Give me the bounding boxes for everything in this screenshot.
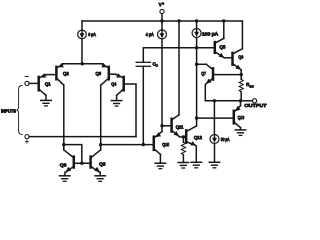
transistor Q11 — [172, 115, 180, 136]
current source I3 100uA — [192, 29, 201, 38]
wire IN+ to Q4 base drop — [29, 136, 136, 138]
node Cc bottom tap — [142, 143, 145, 146]
wire Q7 emitter to output wire — [205, 84, 214, 101]
node mirror bases — [80, 162, 83, 165]
transistor Q2 — [56, 63, 63, 85]
node 100uA-Q13 base — [195, 116, 198, 119]
wire Q4 collector to ground — [116, 95, 118, 100]
wire Q5 base — [197, 47, 214, 49]
ground Q10 — [155, 163, 165, 169]
wire Q7 base to output darlington node — [214, 74, 241, 76]
label Q13 — [238, 115, 245, 120]
terminal IN+ (non-inverting input) — [25, 135, 29, 143]
transistor Q8 — [64, 150, 74, 172]
wire Q6 collector up to rail — [241, 21, 243, 49]
resistor R1 (Q12 base resistor) — [181, 137, 185, 162]
current source I2 4uA — [158, 30, 167, 39]
wire 4uA top — [161, 21, 163, 30]
wire to output terminal — [241, 100, 253, 102]
wire Q5 emitter to Q6 base — [225, 57, 232, 59]
ground Q1 — [41, 100, 51, 106]
node 100uA-Q5 base — [195, 46, 198, 49]
node 50uA tap — [213, 99, 216, 102]
current source I4 50uA — [210, 135, 219, 144]
svg-text:Q2: Q2 — [63, 71, 69, 76]
wire 6uA top — [81, 21, 83, 30]
wire Q1 collector to ground — [45, 95, 47, 100]
wire Q1 emitter to Q2 base — [46, 74, 55, 76]
svg-text:Q4: Q4 — [111, 82, 116, 87]
wire Q11 collector up to rail — [178, 21, 180, 115]
svg-text:Q13: Q13 — [238, 115, 245, 120]
wire Q7 collector to 100uA line — [197, 63, 207, 65]
current source I1 6uA — [78, 30, 87, 39]
wire Q13 base — [197, 117, 233, 119]
label Q11 — [176, 124, 184, 129]
label 100uA — [202, 31, 218, 36]
terminal OUTPUT — [253, 99, 257, 103]
label Q3 — [96, 71, 102, 76]
svg-text:6 µA: 6 µA — [88, 32, 96, 37]
svg-text:+: + — [162, 2, 164, 6]
wire Q12 base — [183, 136, 185, 138]
label Q10 — [162, 142, 169, 147]
wire Q9 collector up — [100, 145, 102, 150]
label C_C — [153, 61, 159, 67]
node rail-I3 — [195, 19, 198, 22]
brace inputs — [17, 86, 22, 135]
wire Q11 base — [162, 125, 171, 127]
wire 50uA top — [213, 101, 215, 135]
wire Q3 collector down to Q9 — [100, 85, 102, 150]
wire Q8 collector up — [63, 145, 65, 150]
transistor Q4 — [116, 73, 124, 95]
wire Cc top to Q5 base node — [143, 48, 196, 63]
wire Q3 base to Q4 emitter — [110, 73, 116, 75]
node output — [239, 99, 242, 102]
svg-text:Q7: Q7 — [201, 71, 206, 76]
wire 6uA to input pair node — [81, 39, 83, 64]
wire output node — [205, 100, 240, 102]
node rail-Q11 — [177, 19, 180, 22]
transistor Q3 — [101, 63, 109, 85]
wire Q8 collector node to mirror bases — [64, 145, 82, 164]
svg-text:Q12: Q12 — [194, 135, 202, 140]
label Q7 — [201, 71, 206, 76]
transistor Q7 — [206, 64, 213, 84]
svg-text:Q3: Q3 — [96, 71, 102, 76]
svg-text:Q5: Q5 — [219, 45, 225, 50]
label Q5 — [219, 45, 225, 50]
wire Q3 emitter to node — [82, 63, 102, 65]
svg-text:SC: SC — [250, 84, 255, 88]
label Q1 — [45, 82, 51, 87]
label Q4 — [111, 82, 116, 87]
transistor Q5 — [215, 38, 225, 57]
label Q2 — [63, 71, 69, 76]
node input pair emitters — [81, 62, 84, 65]
wire second stage input (Q9 collector to Q10 base) — [101, 144, 153, 146]
node Q6 emitter / R_SC / Q7 base — [240, 73, 243, 76]
terminal IN- (inverting input) — [25, 76, 29, 85]
label Q8 — [60, 163, 67, 168]
ground R1 — [178, 163, 188, 169]
ground I4 — [209, 162, 219, 168]
ground Q13 — [235, 130, 245, 136]
svg-text:INPUTS: INPUTS — [1, 109, 16, 114]
node Q11 emitter / Q12 base / R1 — [182, 135, 185, 138]
ground Q9 — [95, 176, 105, 182]
svg-text:Q6: Q6 — [238, 55, 243, 60]
transistor Q6 — [233, 49, 243, 70]
label 6uA — [88, 32, 96, 37]
svg-text:Q8: Q8 — [60, 163, 67, 168]
wire Q4 base right and down to IN+ wire — [125, 84, 137, 137]
svg-text:Q9: Q9 — [99, 162, 106, 167]
transistor Q13 — [234, 106, 241, 128]
wire Q13 emitter up to output — [240, 101, 242, 106]
capacitor C_C — [136, 62, 150, 66]
label 4uA — [146, 32, 154, 37]
label Q12 — [194, 135, 202, 140]
label Q6 — [238, 55, 243, 60]
svg-text:4 µA: 4 µA — [146, 32, 154, 37]
wire Q12 emitter to ground — [195, 146, 197, 162]
node 4uA-Q11 base tap — [160, 124, 163, 127]
ground Q8 — [60, 176, 70, 182]
transistor Q1 — [39, 73, 46, 95]
wire Q10 collector to ground — [159, 154, 161, 163]
svg-text:Q1: Q1 — [45, 82, 51, 87]
resistor R_SC — [239, 75, 243, 101]
wire 50uA to ground — [214, 144, 216, 163]
wire mirror bases — [75, 162, 90, 164]
transistor Q9 — [91, 150, 101, 172]
wire V+ rail — [82, 20, 242, 22]
terminal V+ — [159, 2, 164, 21]
wire 100uA down — [196, 38, 198, 126]
label OUTPUT — [245, 103, 267, 108]
wire Q9 emitter to ground — [99, 172, 101, 175]
label 50uA — [221, 137, 230, 142]
svg-text:Q11: Q11 — [176, 124, 184, 129]
wire 100uA top — [196, 21, 198, 29]
label Q9 — [99, 162, 106, 167]
wire 4uA down to Q10 emitter — [161, 39, 163, 131]
node 100uA-Q7 collector — [195, 63, 198, 66]
svg-text:OUTPUT: OUTPUT — [245, 103, 267, 108]
wire Q8 emitter to ground — [64, 172, 66, 175]
wire Q6 emitter down — [240, 70, 242, 75]
transistor Q10 — [154, 132, 162, 155]
wire Q2 emitter to node — [63, 63, 83, 65]
node Q2-Q8 collectors — [62, 143, 65, 146]
transistor Q12 — [186, 126, 196, 146]
ground Q12 — [191, 162, 201, 168]
node rail-Q5 — [222, 19, 225, 22]
wire IN- to Q1 base — [29, 82, 37, 84]
label INPUTS — [1, 109, 16, 114]
node rail-V+ — [160, 19, 163, 22]
svg-text:Q10: Q10 — [162, 142, 169, 147]
wire Q2 collector down to Q8 — [63, 85, 65, 150]
svg-text:100 µA: 100 µA — [202, 31, 218, 36]
node Q3-Q9 collectors — [99, 143, 102, 146]
label R_SC — [246, 82, 254, 88]
ground Q4 — [111, 101, 121, 107]
wire Q11 emitter to node — [179, 136, 183, 138]
wire Q5 collector up to rail — [223, 21, 225, 38]
svg-text:50 µA: 50 µA — [221, 137, 230, 142]
wire Cc bottom down to node — [142, 66, 144, 144]
svg-text:C: C — [156, 64, 159, 68]
wire Q13 collector to ground — [240, 128, 242, 130]
